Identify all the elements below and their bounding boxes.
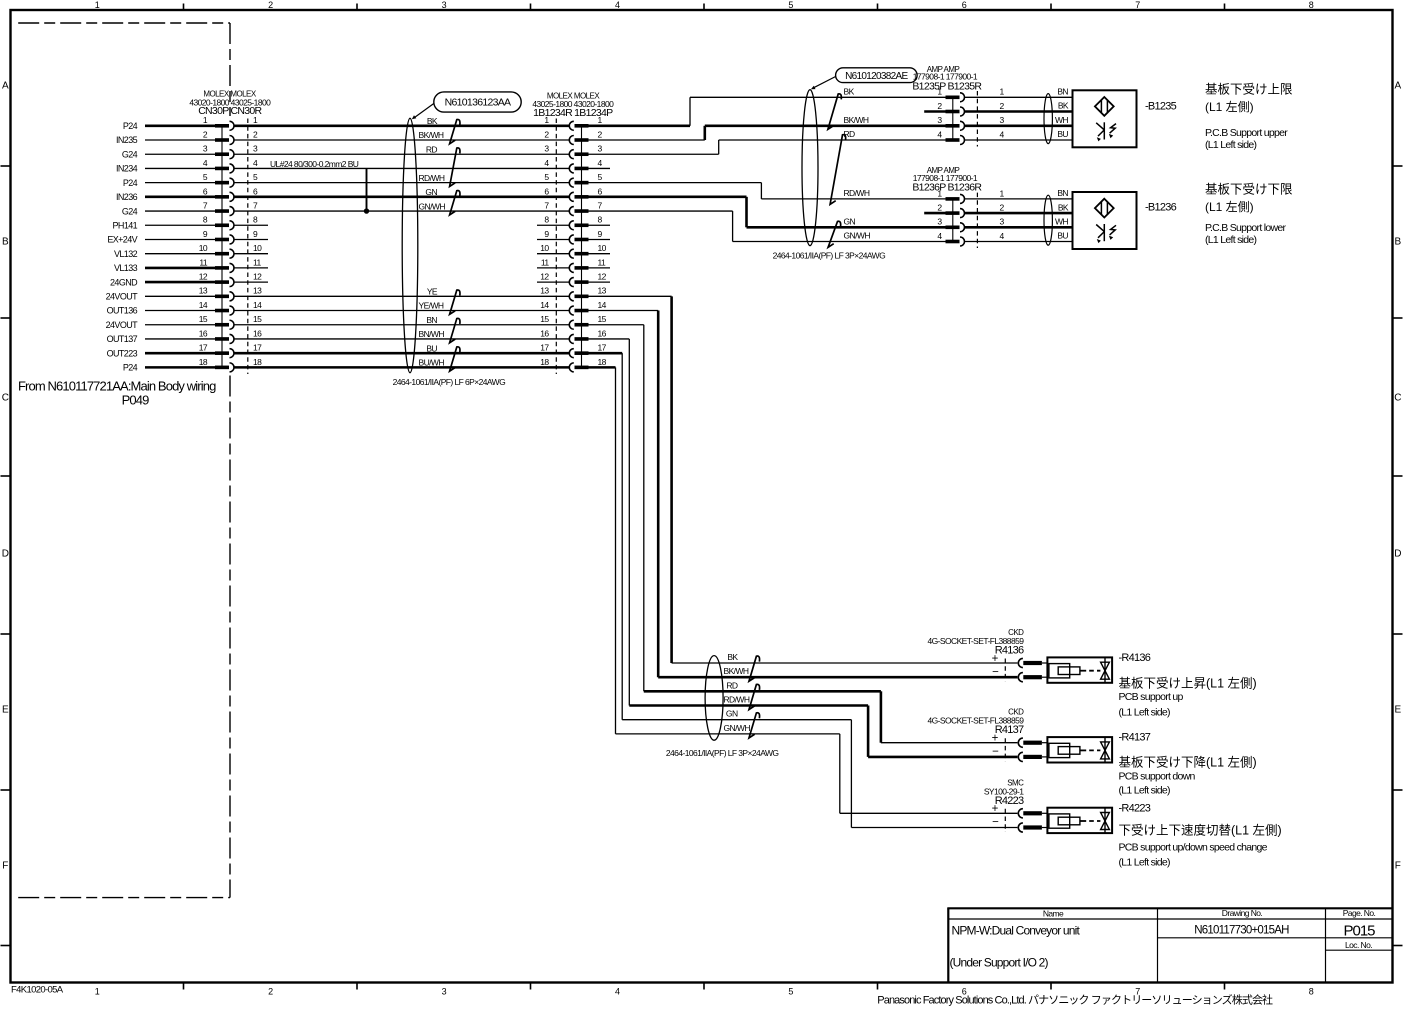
svg-text:PCB support up: PCB support up — [1119, 691, 1184, 703]
svg-text:G24: G24 — [122, 149, 138, 159]
svg-text:B: B — [1395, 237, 1402, 248]
wire CN30R pin 14 to 1B1234R pin 14 — [234, 310, 570, 312]
svg-text:(L1 Left side): (L1 Left side) — [1205, 234, 1257, 246]
svg-text:(L1 Left side): (L1 Left side) — [1119, 857, 1171, 869]
sensor B1236 (photoelectric, P.C.B support lower) — [1073, 192, 1137, 249]
svg-text:D: D — [1394, 549, 1401, 560]
svg-text:16: 16 — [253, 328, 262, 338]
wire RD: 1B1234P pin 3 to AMP connector — [589, 140, 946, 154]
connector R4223 mating line (dashed) — [1004, 809, 1006, 832]
wire RD/WH: 1B1234P pin 5 to AMP connector — [589, 183, 946, 199]
svg-text:RD: RD — [426, 144, 438, 154]
svg-text:RD/WH: RD/WH — [419, 173, 445, 183]
wire stub 1B1234P pin 11 — [589, 267, 611, 269]
svg-text:2: 2 — [268, 987, 273, 997]
cable shield oval N610136123AA — [402, 118, 418, 372]
svg-text:EX+24V: EX+24V — [107, 235, 137, 245]
connector R4136 mating line (dashed) — [1004, 659, 1006, 682]
connector R4136 (+/- sockets) — [992, 653, 1048, 682]
connector 1B1234R/1B1234P (MOLEX 43025-1800 / 43020-1800) — [532, 92, 614, 372]
junction dot pin7/jumper — [364, 208, 369, 213]
svg-text:Drawing No.: Drawing No. — [1222, 908, 1263, 918]
svg-text:Name: Name — [1043, 909, 1064, 919]
svg-text:1: 1 — [95, 987, 100, 997]
wire CN30R pin 5 to 1B1234R pin 5 — [234, 182, 570, 184]
svg-text:RD/WH: RD/WH — [844, 188, 870, 198]
svg-text:−: − — [992, 817, 999, 829]
svg-text:15: 15 — [253, 314, 262, 324]
svg-text:A: A — [2, 81, 9, 92]
svg-text:14: 14 — [598, 300, 607, 310]
wire stub 1B1234P pin 12 — [589, 281, 611, 283]
wire CN30R pin 1 to 1B1234R pin 1 — [234, 125, 570, 128]
wire IN236 to CN30P pin 6 — [116, 192, 215, 202]
svg-text:P24: P24 — [123, 121, 138, 131]
svg-text:17: 17 — [199, 343, 208, 353]
svg-text:IN236: IN236 — [116, 192, 138, 202]
svg-text:(Under Support I/O 2): (Under Support I/O 2) — [950, 956, 1049, 970]
pin numbers 1B1234 — [540, 115, 606, 367]
sensor B1236 description text — [1205, 183, 1293, 246]
twisted pair marks (upper 3P cable) — [828, 94, 846, 247]
svg-text:12: 12 — [199, 272, 208, 282]
svg-text:16: 16 — [199, 328, 208, 338]
svg-text:RD: RD — [726, 680, 738, 690]
svg-text:-B1236: -B1236 — [1145, 202, 1177, 214]
svg-text:BK/WH: BK/WH — [844, 115, 869, 125]
svg-text:BU/WH: BU/WH — [419, 358, 445, 368]
valve R4137 description text — [1119, 732, 1257, 797]
svg-text:B1235P B1235R: B1235P B1235R — [912, 80, 982, 92]
wire BK/WH to valve R4136 (-) — [658, 676, 1017, 679]
svg-text:14: 14 — [199, 300, 208, 310]
connector B1235P/B1235R (AMP 177908-1 / 177900-1) — [912, 65, 982, 145]
svg-text:1: 1 — [95, 0, 100, 10]
connector CN30 mating line (dashed) — [247, 119, 249, 375]
wire OUT223 to CN30P pin 17 — [107, 348, 215, 358]
connector R4223 (+/- sockets) — [992, 803, 1048, 832]
wire P24 to CN30P pin 18 — [123, 363, 215, 373]
wire stub B1235P pin 2 — [924, 110, 945, 113]
svg-text:16: 16 — [540, 328, 549, 338]
wire stub 1B1234R pin 10 — [537, 253, 570, 255]
svg-text:E: E — [1395, 705, 1402, 716]
svg-text:13: 13 — [253, 286, 262, 296]
wire GN/WH to valve R4223 (+) — [616, 734, 1018, 813]
wire stub CN30R pin 12 — [234, 281, 268, 283]
svg-text:F: F — [2, 861, 8, 872]
svg-text:WH: WH — [1055, 217, 1068, 227]
sensor B1235 (photoelectric, P.C.B support upper) — [1073, 90, 1137, 147]
wire stub B1236P pin 2 — [924, 212, 945, 215]
solenoid valve R4137 — [1047, 737, 1112, 762]
svg-text:7: 7 — [1135, 0, 1140, 10]
svg-text:-R4137: -R4137 — [1119, 732, 1151, 744]
svg-text:E: E — [2, 705, 9, 716]
wire EX+24V to CN30P pin 9 — [107, 235, 215, 245]
wire stub 1B1234R pin 11 — [537, 267, 570, 269]
svg-text:BU: BU — [1057, 129, 1068, 139]
svg-text:(L1 Left side): (L1 Left side) — [1119, 707, 1171, 719]
wire 24VOUT to CN30P pin 15 — [106, 320, 215, 330]
valve R4223 description text — [1119, 802, 1282, 868]
svg-text:−: − — [992, 746, 999, 758]
wire stub CN30R pin 10 — [234, 253, 268, 255]
svg-text:10: 10 — [540, 243, 549, 253]
svg-text:GN/WH: GN/WH — [419, 201, 446, 211]
wire 1B1234P pin 17 down to lower cable row 5 — [589, 353, 623, 720]
svg-text:8: 8 — [1309, 987, 1314, 997]
svg-text:PCB support down: PCB support down — [1119, 771, 1196, 783]
svg-text:12: 12 — [253, 272, 262, 282]
part labels R4137 (CKD 4G-SOCKET-SET-FL388859) — [927, 708, 1024, 737]
svg-text:N610117730+015AH: N610117730+015AH — [1194, 925, 1289, 937]
svg-text:WH: WH — [1055, 115, 1068, 125]
balloon label N610136123AA — [412, 92, 521, 119]
solenoid valve R4136 — [1047, 657, 1112, 682]
svg-text:Loc. No.: Loc. No. — [1345, 940, 1372, 950]
svg-text:24GND: 24GND — [110, 277, 138, 287]
svg-text:P24: P24 — [123, 178, 138, 188]
connector B1236 mating line (dashed) — [976, 193, 978, 248]
pin numbers B1235 — [937, 87, 1004, 140]
svg-text:UL#24 80/300-0.2mm2 BU: UL#24 80/300-0.2mm2 BU — [270, 159, 359, 169]
svg-text:3: 3 — [442, 0, 447, 10]
svg-text:(L1 Left side): (L1 Left side) — [1205, 139, 1257, 151]
svg-text:BK/WH: BK/WH — [724, 666, 749, 676]
svg-text:10: 10 — [253, 243, 262, 253]
svg-text:R4136: R4136 — [995, 645, 1024, 657]
wire VL133 to CN30P pin 11 — [114, 263, 215, 273]
wire stub 1B1234P pin 8 — [589, 224, 611, 226]
svg-text:BU: BU — [1057, 231, 1068, 241]
wire OUT137 to CN30P pin 16 — [107, 334, 215, 344]
wire CN30R pin 15 to 1B1234R pin 15 — [234, 324, 570, 326]
svg-text:BK: BK — [1058, 101, 1069, 111]
svg-text:18: 18 — [598, 357, 607, 367]
svg-text:Panasonic Factory Solutions Co: Panasonic Factory Solutions Co.,Ltd. パナソ… — [877, 993, 1273, 1007]
wire 1B1234P pin 16 down to lower cable row 4 — [589, 339, 630, 706]
svg-text:BN/WH: BN/WH — [419, 329, 445, 339]
connector R4137 mating line (dashed) — [1004, 738, 1006, 761]
svg-text:GN: GN — [844, 216, 856, 226]
wire BK/WH: 1B1234P pin 2 to AMP connector — [589, 126, 946, 140]
svg-text:13: 13 — [598, 286, 607, 296]
wire OUT136 to CN30P pin 14 — [107, 306, 215, 316]
svg-text:A: A — [1395, 81, 1402, 92]
svg-text:From N610117721AA:Main Body w: From N610117721AA:Main Body wiring — [18, 379, 216, 394]
svg-text:17: 17 — [253, 343, 262, 353]
svg-text:BK: BK — [727, 652, 738, 662]
wire CN30R pin 17 to 1B1234R pin 17 — [234, 352, 570, 355]
svg-text:GN/WH: GN/WH — [844, 231, 871, 241]
wire IN234 to CN30P pin 4 — [116, 164, 215, 174]
jumper wire UL#24 80/300-0.2mm2 BU (pin4 to pin7) — [270, 159, 367, 211]
svg-text:11: 11 — [598, 257, 607, 267]
svg-text:11: 11 — [541, 257, 550, 267]
svg-text:-B1235: -B1235 — [1145, 101, 1177, 113]
svg-text:13: 13 — [199, 286, 208, 296]
svg-text:P.C.B Support lower: P.C.B Support lower — [1205, 222, 1286, 234]
wire RD/WH to valve R4137 (-) — [629, 706, 1017, 757]
svg-text:(L1 Left side): (L1 Left side) — [1119, 785, 1171, 797]
wire color labels (6P cable) — [419, 116, 446, 368]
pin numbers B1236 — [937, 188, 1004, 241]
wire stub CN30R pin 9 — [234, 238, 268, 240]
wire CN30R pin 4 to 1B1234R pin 4 — [234, 167, 570, 169]
part labels R4136 (CKD 4G-SOCKET-SET-FL388859) — [927, 628, 1024, 657]
svg-text:R4137: R4137 — [995, 724, 1024, 736]
svg-text:BK: BK — [1058, 202, 1069, 212]
svg-text:4: 4 — [615, 0, 620, 10]
svg-text:12: 12 — [598, 272, 607, 282]
svg-text:-R4136: -R4136 — [1119, 652, 1151, 664]
svg-text:F4K1020-05A: F4K1020-05A — [11, 985, 64, 996]
wire 1B1234P pin 13 down to lower cable row 1 — [589, 296, 672, 663]
svg-text:OUT136: OUT136 — [107, 306, 138, 316]
svg-text:BN: BN — [1057, 188, 1068, 198]
svg-text:Page. No.: Page. No. — [1343, 908, 1376, 918]
svg-text:P24: P24 — [123, 363, 138, 373]
wire 24GND to CN30P pin 12 — [110, 277, 215, 287]
twisted pair marks (lower 3P cable) — [749, 656, 760, 738]
svg-text:11: 11 — [253, 257, 262, 267]
svg-text:(L1 左側): (L1 左側) — [1205, 199, 1254, 214]
solenoid valve R4223 — [1047, 808, 1112, 833]
wire RD to valve R4137 (+) — [644, 691, 1018, 742]
connector CN30P/CN30R (MOLEX 43020-1800 / 43025-1800) — [189, 90, 271, 372]
svg-text:C: C — [1394, 393, 1401, 404]
wire GN to valve R4223 (-) — [622, 720, 1017, 828]
svg-text:3: 3 — [442, 987, 447, 997]
wire 24VOUT to CN30P pin 13 — [106, 292, 215, 302]
svg-text:PCB support up/down speed chan: PCB support up/down speed change — [1119, 842, 1268, 854]
wire 1B1234P pin 15 down to lower cable row 3 — [589, 325, 644, 692]
wire CN30R pin 3 to 1B1234R pin 3 — [234, 153, 570, 155]
wire CN30R pin 16 to 1B1234R pin 16 — [234, 338, 570, 340]
svg-text:R4223: R4223 — [995, 795, 1024, 807]
cable shield oval (lower 3P cable) — [705, 656, 723, 741]
svg-text:BK: BK — [844, 86, 855, 96]
wire stub 1B1234P pin 4 — [589, 167, 611, 169]
svg-text:RD/WH: RD/WH — [724, 695, 750, 705]
wire G24 to CN30P pin 3 — [122, 149, 215, 159]
wire stub 1B1234P pin 10 — [589, 253, 611, 255]
svg-text:F: F — [1395, 861, 1401, 872]
wire GN: 1B1234P pin 6 to AMP connector — [589, 197, 946, 227]
svg-text:-R4223: -R4223 — [1119, 802, 1151, 814]
svg-text:GN: GN — [726, 709, 738, 719]
wire IN235 to CN30P pin 2 — [116, 135, 215, 145]
svg-text:P.C.B Support upper: P.C.B Support upper — [1205, 127, 1288, 139]
svg-text:YE: YE — [427, 287, 438, 297]
svg-text:N610136123AA: N610136123AA — [445, 97, 511, 109]
wire 1B1234P pin 14 down to lower cable row 2 — [589, 311, 659, 678]
connector R4137 (+/- sockets) — [992, 733, 1048, 762]
svg-text:基板下受け上限: 基板下受け上限 — [1205, 83, 1293, 97]
pin numbers CN30 — [199, 115, 262, 367]
connector 1B1234 mating line (dashed) — [555, 119, 557, 375]
wire stub CN30R pin 8 — [234, 224, 268, 226]
svg-text:YE/WH: YE/WH — [419, 301, 444, 311]
svg-text:(L1 左側): (L1 左側) — [1205, 99, 1254, 114]
wire color labels (upper 3P cable) — [844, 86, 871, 240]
wire CN30R pin 13 to 1B1234R pin 13 — [234, 295, 570, 297]
wire P24 to CN30P pin 1 — [123, 121, 215, 131]
svg-text:13: 13 — [540, 286, 549, 296]
svg-text:17: 17 — [598, 343, 607, 353]
svg-text:B1236P B1236R: B1236P B1236R — [912, 182, 982, 194]
wire CN30R pin 7 to 1B1234R pin 7 — [234, 210, 570, 212]
wire stub 1B1234P pin 9 — [589, 238, 611, 240]
connector B1236P/B1236R (AMP 177908-1 / 177900-1) — [912, 166, 982, 246]
svg-text:18: 18 — [540, 357, 549, 367]
boundary: main body unit (dashed outline) — [18, 23, 230, 898]
wire stub 1B1234R pin 9 — [537, 238, 570, 240]
svg-text:IN235: IN235 — [116, 135, 138, 145]
svg-text:6: 6 — [962, 0, 967, 10]
connector B1235 mating line (dashed) — [976, 91, 978, 147]
svg-text:B: B — [2, 237, 9, 248]
wire color labels (lower 3P cable) — [724, 652, 751, 733]
valve R4136 description text — [1119, 652, 1257, 719]
svg-text:2464-1061/IIA(PF) LF 3P×24AWG: 2464-1061/IIA(PF) LF 3P×24AWG — [773, 251, 886, 261]
svg-text:BK: BK — [427, 116, 438, 126]
wire GN/WH: 1B1234P pin 7 to AMP connector — [589, 211, 946, 241]
svg-text:−: − — [992, 666, 999, 678]
svg-text:11: 11 — [199, 257, 208, 267]
svg-text:4: 4 — [615, 987, 620, 997]
svg-text:基板下受け下限: 基板下受け下限 — [1205, 183, 1293, 197]
svg-text:P015: P015 — [1344, 923, 1376, 940]
svg-text:N610120382AE: N610120382AE — [845, 71, 908, 82]
note: From N610117721AA Main Body wiring P049 — [18, 379, 216, 408]
wire CN30R pin 2 to 1B1234R pin 2 — [234, 139, 570, 141]
wire stub CN30R pin 11 — [234, 267, 268, 269]
svg-text:VL132: VL132 — [114, 249, 138, 259]
svg-text:PH141: PH141 — [113, 220, 138, 230]
balloon label N610120382AE — [811, 68, 917, 90]
wire G24 to CN30P pin 7 — [122, 206, 215, 216]
svg-text:P049: P049 — [122, 393, 149, 408]
svg-text:5: 5 — [788, 987, 793, 997]
wire 1B1234P pin 18 down to lower cable row 6 — [589, 367, 616, 734]
svg-text:10: 10 — [199, 243, 208, 253]
svg-text:12: 12 — [540, 272, 549, 282]
wires B1236R to sensor B1236 (BN BK WH BU) — [965, 188, 1073, 245]
wire CN30R pin 18 to 1B1234R pin 18 — [234, 366, 570, 369]
svg-text:2: 2 — [268, 0, 273, 10]
wire BK to valve R4136 (+) — [672, 662, 1018, 664]
wire stub 1B1234R pin 12 — [537, 281, 570, 283]
svg-text:OUT137: OUT137 — [107, 334, 138, 344]
svg-text:GN/WH: GN/WH — [724, 723, 751, 733]
svg-text:BN: BN — [426, 315, 437, 325]
wire BK: 1B1234P pin 1 to AMP connector — [589, 97, 946, 126]
svg-text:14: 14 — [540, 300, 549, 310]
svg-text:D: D — [2, 549, 9, 560]
svg-text:5: 5 — [788, 0, 793, 10]
svg-text:16: 16 — [598, 328, 607, 338]
svg-text:基板下受け上昇(L1 左側): 基板下受け上昇(L1 左側) — [1119, 676, 1257, 691]
wire P24 to CN30P pin 5 — [123, 178, 215, 188]
svg-text:24VOUT: 24VOUT — [106, 292, 138, 302]
svg-text:基板下受け下降(L1 左側): 基板下受け下降(L1 左側) — [1119, 755, 1257, 770]
part labels R4223 (SMC SY100-29-1) — [984, 779, 1024, 807]
wire CN30R pin 6 to 1B1234R pin 6 — [234, 196, 570, 199]
svg-text:BN: BN — [1057, 87, 1068, 97]
sensor B1235 description text — [1205, 83, 1293, 151]
svg-text:VL133: VL133 — [114, 263, 138, 273]
wires B1235R to sensor B1235 (BN BK WH BU) — [965, 87, 1073, 144]
svg-text:NPM-W:Dual Conveyor unit: NPM-W:Dual Conveyor unit — [952, 924, 1081, 938]
svg-text:10: 10 — [598, 243, 607, 253]
svg-text:BU: BU — [426, 343, 437, 353]
twisted pair marks (6P cable) — [450, 119, 460, 371]
wire stub 1B1234R pin 8 — [537, 224, 570, 226]
svg-text:G24: G24 — [122, 206, 138, 216]
svg-text:15: 15 — [199, 314, 208, 324]
svg-text:18: 18 — [199, 357, 208, 367]
svg-text:下受け上下速度切替(L1 左側): 下受け上下速度切替(L1 左側) — [1119, 823, 1282, 838]
svg-text:C: C — [2, 393, 9, 404]
svg-text:OUT223: OUT223 — [107, 348, 138, 358]
svg-text:18: 18 — [253, 357, 262, 367]
wire VL132 to CN30P pin 10 — [114, 249, 215, 259]
svg-text:15: 15 — [540, 314, 549, 324]
svg-text:GN: GN — [425, 187, 437, 197]
svg-text:BK/WH: BK/WH — [419, 130, 444, 140]
svg-text:2464-1061/IIA(PF) LF 6P×24AWG: 2464-1061/IIA(PF) LF 6P×24AWG — [393, 377, 506, 387]
svg-text:8: 8 — [1309, 0, 1314, 10]
svg-text:15: 15 — [598, 314, 607, 324]
svg-text:2464-1061/IIA(PF) LF 3P×24AWG: 2464-1061/IIA(PF) LF 3P×24AWG — [666, 748, 779, 758]
wire PH141 to CN30P pin 8 — [113, 220, 215, 230]
svg-text:14: 14 — [253, 300, 262, 310]
svg-text:24VOUT: 24VOUT — [106, 320, 138, 330]
svg-text:17: 17 — [540, 343, 549, 353]
svg-text:IN234: IN234 — [116, 164, 138, 174]
cable shield oval N610120382AE — [802, 90, 818, 246]
